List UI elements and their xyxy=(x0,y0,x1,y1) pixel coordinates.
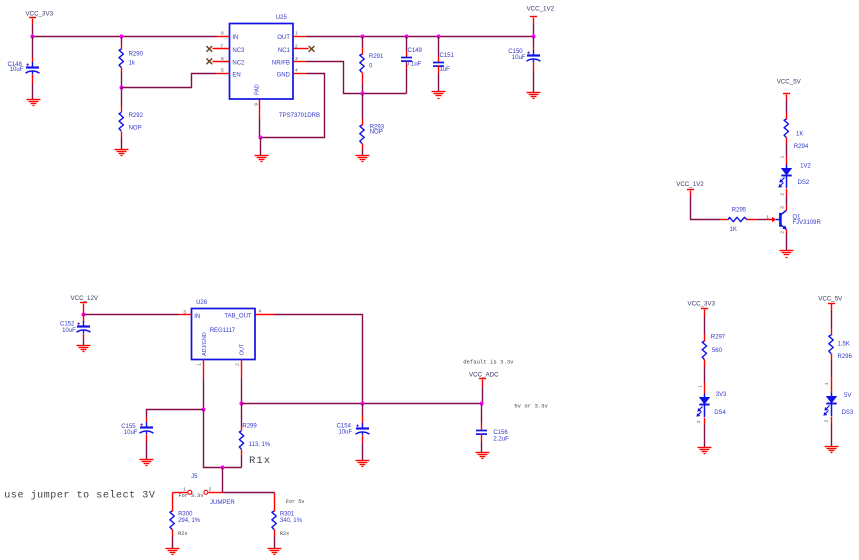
pin 1 of DS2 xyxy=(786,156,788,165)
pin 1 of DS3 xyxy=(831,377,833,393)
svg-text:0: 0 xyxy=(369,63,373,69)
svg-text:NC3: NC3 xyxy=(232,48,245,54)
node jumper tap junction xyxy=(220,465,224,469)
svg-text:IN: IN xyxy=(232,35,238,41)
svg-text:R297: R297 xyxy=(711,335,726,341)
svg-text:3: 3 xyxy=(779,206,785,209)
op-amp U26 REG1117 regulator body xyxy=(192,309,256,360)
node R290/R292/EN junction xyxy=(119,85,123,89)
svg-text:J5: J5 xyxy=(191,474,198,480)
svg-text:U26: U26 xyxy=(196,300,208,306)
svg-text:1K: 1K xyxy=(796,131,803,137)
wire OUT pin down xyxy=(241,379,243,404)
ground below C150 xyxy=(527,93,541,99)
pin 4 GND of U25 xyxy=(294,73,307,75)
svg-text:R294: R294 xyxy=(794,144,809,150)
svg-text:10uF: 10uF xyxy=(512,55,526,61)
svg-text:1uF: 1uF xyxy=(440,67,451,73)
svg-text:For 5v: For 5v xyxy=(286,499,305,505)
svg-text:OUT: OUT xyxy=(240,343,246,355)
svg-text:FJV3109R: FJV3109R xyxy=(793,220,822,226)
resistor R300 294 1% xyxy=(172,493,174,512)
svg-text:1K: 1K xyxy=(730,227,737,233)
svg-text:R290: R290 xyxy=(129,51,144,57)
ground below DS3 xyxy=(825,447,839,453)
capacitor C155 10uF xyxy=(146,418,148,423)
svg-text:VCC_12V: VCC_12V xyxy=(71,295,99,302)
svg-text:R291: R291 xyxy=(369,54,384,60)
svg-text:5: 5 xyxy=(221,68,224,74)
no-connect X on NC1 xyxy=(309,46,315,52)
svg-text:1: 1 xyxy=(183,487,186,493)
svg-text:3: 3 xyxy=(295,56,298,62)
wire VCC_ADC rail xyxy=(242,403,482,405)
svg-text:340, 1%: 340, 1% xyxy=(280,518,303,524)
svg-text:R296: R296 xyxy=(838,354,853,360)
wire R295 to Q1 base xyxy=(758,219,767,221)
node VCC_ADC/C156 junction xyxy=(479,401,483,405)
svg-text:8: 8 xyxy=(221,31,224,37)
svg-text:4: 4 xyxy=(259,309,262,315)
no-connect X on NC2 xyxy=(206,58,212,64)
svg-text:VCC_5V: VCC_5V xyxy=(818,295,843,302)
resistor R291 0 xyxy=(362,37,364,48)
ground below R301 xyxy=(268,549,282,555)
svg-text:ADJ/GND: ADJ/GND xyxy=(202,332,208,356)
svg-text:C151: C151 xyxy=(440,53,455,59)
svg-text:3: 3 xyxy=(183,309,186,315)
node R290 top junction xyxy=(119,34,123,38)
wire NR/FB feedback net xyxy=(307,62,407,94)
wire VCC_3V3 rail to U25 IN xyxy=(32,25,34,37)
ground below C155 xyxy=(140,460,154,466)
svg-text:294, 1%: 294, 1% xyxy=(178,518,201,524)
wire ADJ junction down to jumper node xyxy=(204,410,242,468)
node ADJ/C155 junction xyxy=(201,407,205,411)
transistor Q1 FJV3109R xyxy=(776,210,787,229)
ground below C154 xyxy=(356,461,370,467)
svg-text:2: 2 xyxy=(234,363,240,366)
svg-text:C149: C149 xyxy=(408,48,423,54)
svg-text:EN: EN xyxy=(232,72,240,78)
pin 1 base of Q1 with arrow xyxy=(767,219,773,221)
svg-text:default is 3.3v: default is 3.3v xyxy=(463,358,514,365)
ground below R293 xyxy=(356,156,370,162)
svg-text:1V2: 1V2 xyxy=(800,164,811,170)
svg-text:5V: 5V xyxy=(844,393,851,399)
node C154 rail junction xyxy=(360,401,364,405)
resistor R290 1k xyxy=(121,37,123,44)
node PAD/GND junction xyxy=(258,135,262,139)
svg-text:C152: C152 xyxy=(60,322,75,328)
svg-text:2: 2 xyxy=(779,231,785,234)
svg-text:1: 1 xyxy=(824,382,830,385)
svg-text:VCC_ADC: VCC_ADC xyxy=(469,372,499,379)
svg-text:DS2: DS2 xyxy=(798,180,810,186)
svg-text:VCC_3V3: VCC_3V3 xyxy=(688,301,716,308)
capacitor C149 0.1uF xyxy=(406,37,408,51)
wire ADJ junction to C155 xyxy=(147,410,204,418)
svg-text:R2x: R2x xyxy=(280,531,289,537)
capacitor C148 10uF xyxy=(32,37,34,58)
wire TAB_OUT to VCC_ADC rail xyxy=(275,315,363,404)
ground below U25 PAD xyxy=(255,156,269,162)
svg-text:NC2: NC2 xyxy=(232,60,245,66)
svg-text:0.1uF: 0.1uF xyxy=(406,62,422,68)
LED DS2 xyxy=(778,165,791,189)
node R291 top junction xyxy=(360,34,364,38)
svg-text:2: 2 xyxy=(824,419,830,422)
svg-text:560: 560 xyxy=(712,348,723,354)
svg-text:R295: R295 xyxy=(732,207,747,213)
pin 1 of DS4 xyxy=(704,383,706,394)
svg-text:1.5K: 1.5K xyxy=(838,342,850,348)
svg-text:TAB_OUT: TAB_OUT xyxy=(224,314,252,320)
no-connect X on NC3 xyxy=(206,46,212,52)
node C151 top junction xyxy=(436,34,440,38)
pin 2 emitter of Q1 xyxy=(786,230,788,234)
ground below Q1 xyxy=(780,251,794,258)
svg-text:2: 2 xyxy=(209,487,212,493)
wire U25 GND pin to ground xyxy=(261,74,325,138)
svg-text:2.2uF: 2.2uF xyxy=(493,436,509,442)
svg-text:R299: R299 xyxy=(242,424,257,430)
wire EN net to U25 EN pin xyxy=(122,74,217,88)
svg-text:5v or 3.3v: 5v or 3.3v xyxy=(514,403,548,410)
node VCC_1V2/C150 junction xyxy=(531,34,535,38)
pin 4 TAB_OUT of U26 xyxy=(256,314,275,316)
svg-text:113, 1%: 113, 1% xyxy=(249,442,271,448)
svg-text:R292: R292 xyxy=(129,113,144,119)
svg-text:10uF: 10uF xyxy=(339,429,353,435)
svg-text:R2x: R2x xyxy=(178,531,187,537)
resistor R299 113 1% xyxy=(241,404,243,427)
svg-text:VCC_1V2: VCC_1V2 xyxy=(676,181,704,188)
pin 8 IN of U25 xyxy=(217,36,230,38)
svg-text:U25: U25 xyxy=(276,15,288,21)
capacitor C151 1uF xyxy=(438,37,440,56)
ground below DS4 xyxy=(698,448,712,454)
svg-text:R300: R300 xyxy=(178,512,193,518)
resistor R297 560 xyxy=(704,335,706,342)
pin 2 of DS2 xyxy=(786,189,788,197)
svg-text:OUT: OUT xyxy=(277,35,290,41)
pin 2 of DS4 xyxy=(704,418,706,425)
svg-text:1: 1 xyxy=(295,31,298,37)
wire jumper node to R301 xyxy=(223,492,275,494)
svg-text:GND: GND xyxy=(277,72,291,78)
svg-text:VCC_3V3: VCC_3V3 xyxy=(26,10,54,17)
node VCC_3V3/C148 junction xyxy=(30,34,34,38)
svg-text:REG1117: REG1117 xyxy=(210,328,236,334)
LED DS4 xyxy=(696,394,709,418)
svg-text:NOP: NOP xyxy=(129,126,142,132)
svg-text:TPS73701DRB: TPS73701DRB xyxy=(279,113,320,119)
svg-text:7: 7 xyxy=(220,44,223,50)
ground below C156 xyxy=(476,453,490,459)
wire OUT rail to VCC_1V2 xyxy=(307,36,534,38)
ground below C148 xyxy=(27,100,41,106)
node OUT/R299/rail junction xyxy=(239,401,243,405)
svg-text:NC1: NC1 xyxy=(278,48,291,54)
pin 2 of DS3 xyxy=(831,417,833,424)
capacitor C150 10uF xyxy=(533,37,535,47)
svg-text:1k: 1k xyxy=(129,61,136,67)
pin 3 IN of U26 xyxy=(179,314,192,316)
svg-text:JUMPER: JUMPER xyxy=(210,500,235,506)
ground below C151 xyxy=(432,92,446,99)
resistor R301 340 1% xyxy=(274,493,276,512)
pin 6 NC2 of U25 xyxy=(213,61,230,63)
pin 7 NC3 of U25 xyxy=(213,48,230,50)
pin 2 NC1 of U25 xyxy=(294,48,309,50)
pin 5 EN of U25 xyxy=(217,73,230,75)
node VCC_12V/C152 junction xyxy=(81,312,85,316)
ground below R292 xyxy=(115,150,129,156)
op-amp U25 TPS73701DRB regulator body xyxy=(230,24,294,100)
svg-text:VCC_1V2: VCC_1V2 xyxy=(527,5,555,12)
svg-text:10uF: 10uF xyxy=(62,328,76,334)
wire VCC_12V to U26 IN xyxy=(84,314,179,316)
wire VCC_1V2 to R295 xyxy=(691,197,720,220)
svg-text:R1x: R1x xyxy=(249,455,271,467)
svg-text:PAD: PAD xyxy=(255,84,261,95)
svg-text:R301: R301 xyxy=(280,512,295,518)
svg-text:2: 2 xyxy=(779,193,785,196)
svg-text:2: 2 xyxy=(696,420,702,423)
svg-text:use jumper to select 3V: use jumper to select 3V xyxy=(4,489,155,501)
pin 1 OUT of U25 xyxy=(294,36,307,38)
svg-text:10uF: 10uF xyxy=(124,430,138,436)
svg-text:For 3.3v: For 3.3v xyxy=(179,493,204,499)
ground below R300 xyxy=(166,549,180,555)
wire PAD to ground junction xyxy=(259,119,261,138)
svg-text:VCC_5V: VCC_5V xyxy=(777,79,802,86)
svg-text:DS4: DS4 xyxy=(714,410,726,416)
node C149 top junction xyxy=(404,34,408,38)
svg-text:NR/FB: NR/FB xyxy=(272,60,290,66)
svg-text:1: 1 xyxy=(697,385,703,388)
resistor R294 1K xyxy=(786,113,788,120)
wire jumper tap down xyxy=(222,468,224,493)
svg-text:4: 4 xyxy=(295,68,298,74)
svg-text:NOP: NOP xyxy=(370,130,383,136)
resistor R296 1.5K xyxy=(831,329,833,336)
pin 3 NR/FB of U25 xyxy=(294,61,307,63)
svg-text:DS3: DS3 xyxy=(842,410,854,416)
resistor R295 1K xyxy=(720,219,729,221)
LED DS3 xyxy=(823,393,836,417)
svg-text:3V3: 3V3 xyxy=(716,392,727,398)
svg-text:6: 6 xyxy=(221,56,224,62)
svg-text:2: 2 xyxy=(295,44,298,50)
capacitor C152 10uF xyxy=(83,315,85,322)
wire DS2 cathode to Q1 collector xyxy=(786,197,788,206)
capacitor C156 2.2uF xyxy=(481,404,483,423)
wire ADJ/GND down xyxy=(203,379,205,410)
capacitor C154 10uF xyxy=(362,404,364,416)
resistor R292 NOP xyxy=(121,88,123,106)
svg-text:IN: IN xyxy=(194,314,200,320)
svg-text:1: 1 xyxy=(766,215,769,221)
svg-text:1: 1 xyxy=(197,363,203,366)
resistor R293 NOP xyxy=(362,94,364,119)
pin 3 collector of Q1 xyxy=(786,206,788,211)
node R291/R293/feedback junction xyxy=(360,91,364,95)
svg-text:9: 9 xyxy=(254,103,260,106)
svg-text:10uF: 10uF xyxy=(10,67,24,73)
svg-text:1: 1 xyxy=(779,155,785,158)
ground below C152 xyxy=(77,346,91,352)
svg-text:C156: C156 xyxy=(493,430,508,436)
